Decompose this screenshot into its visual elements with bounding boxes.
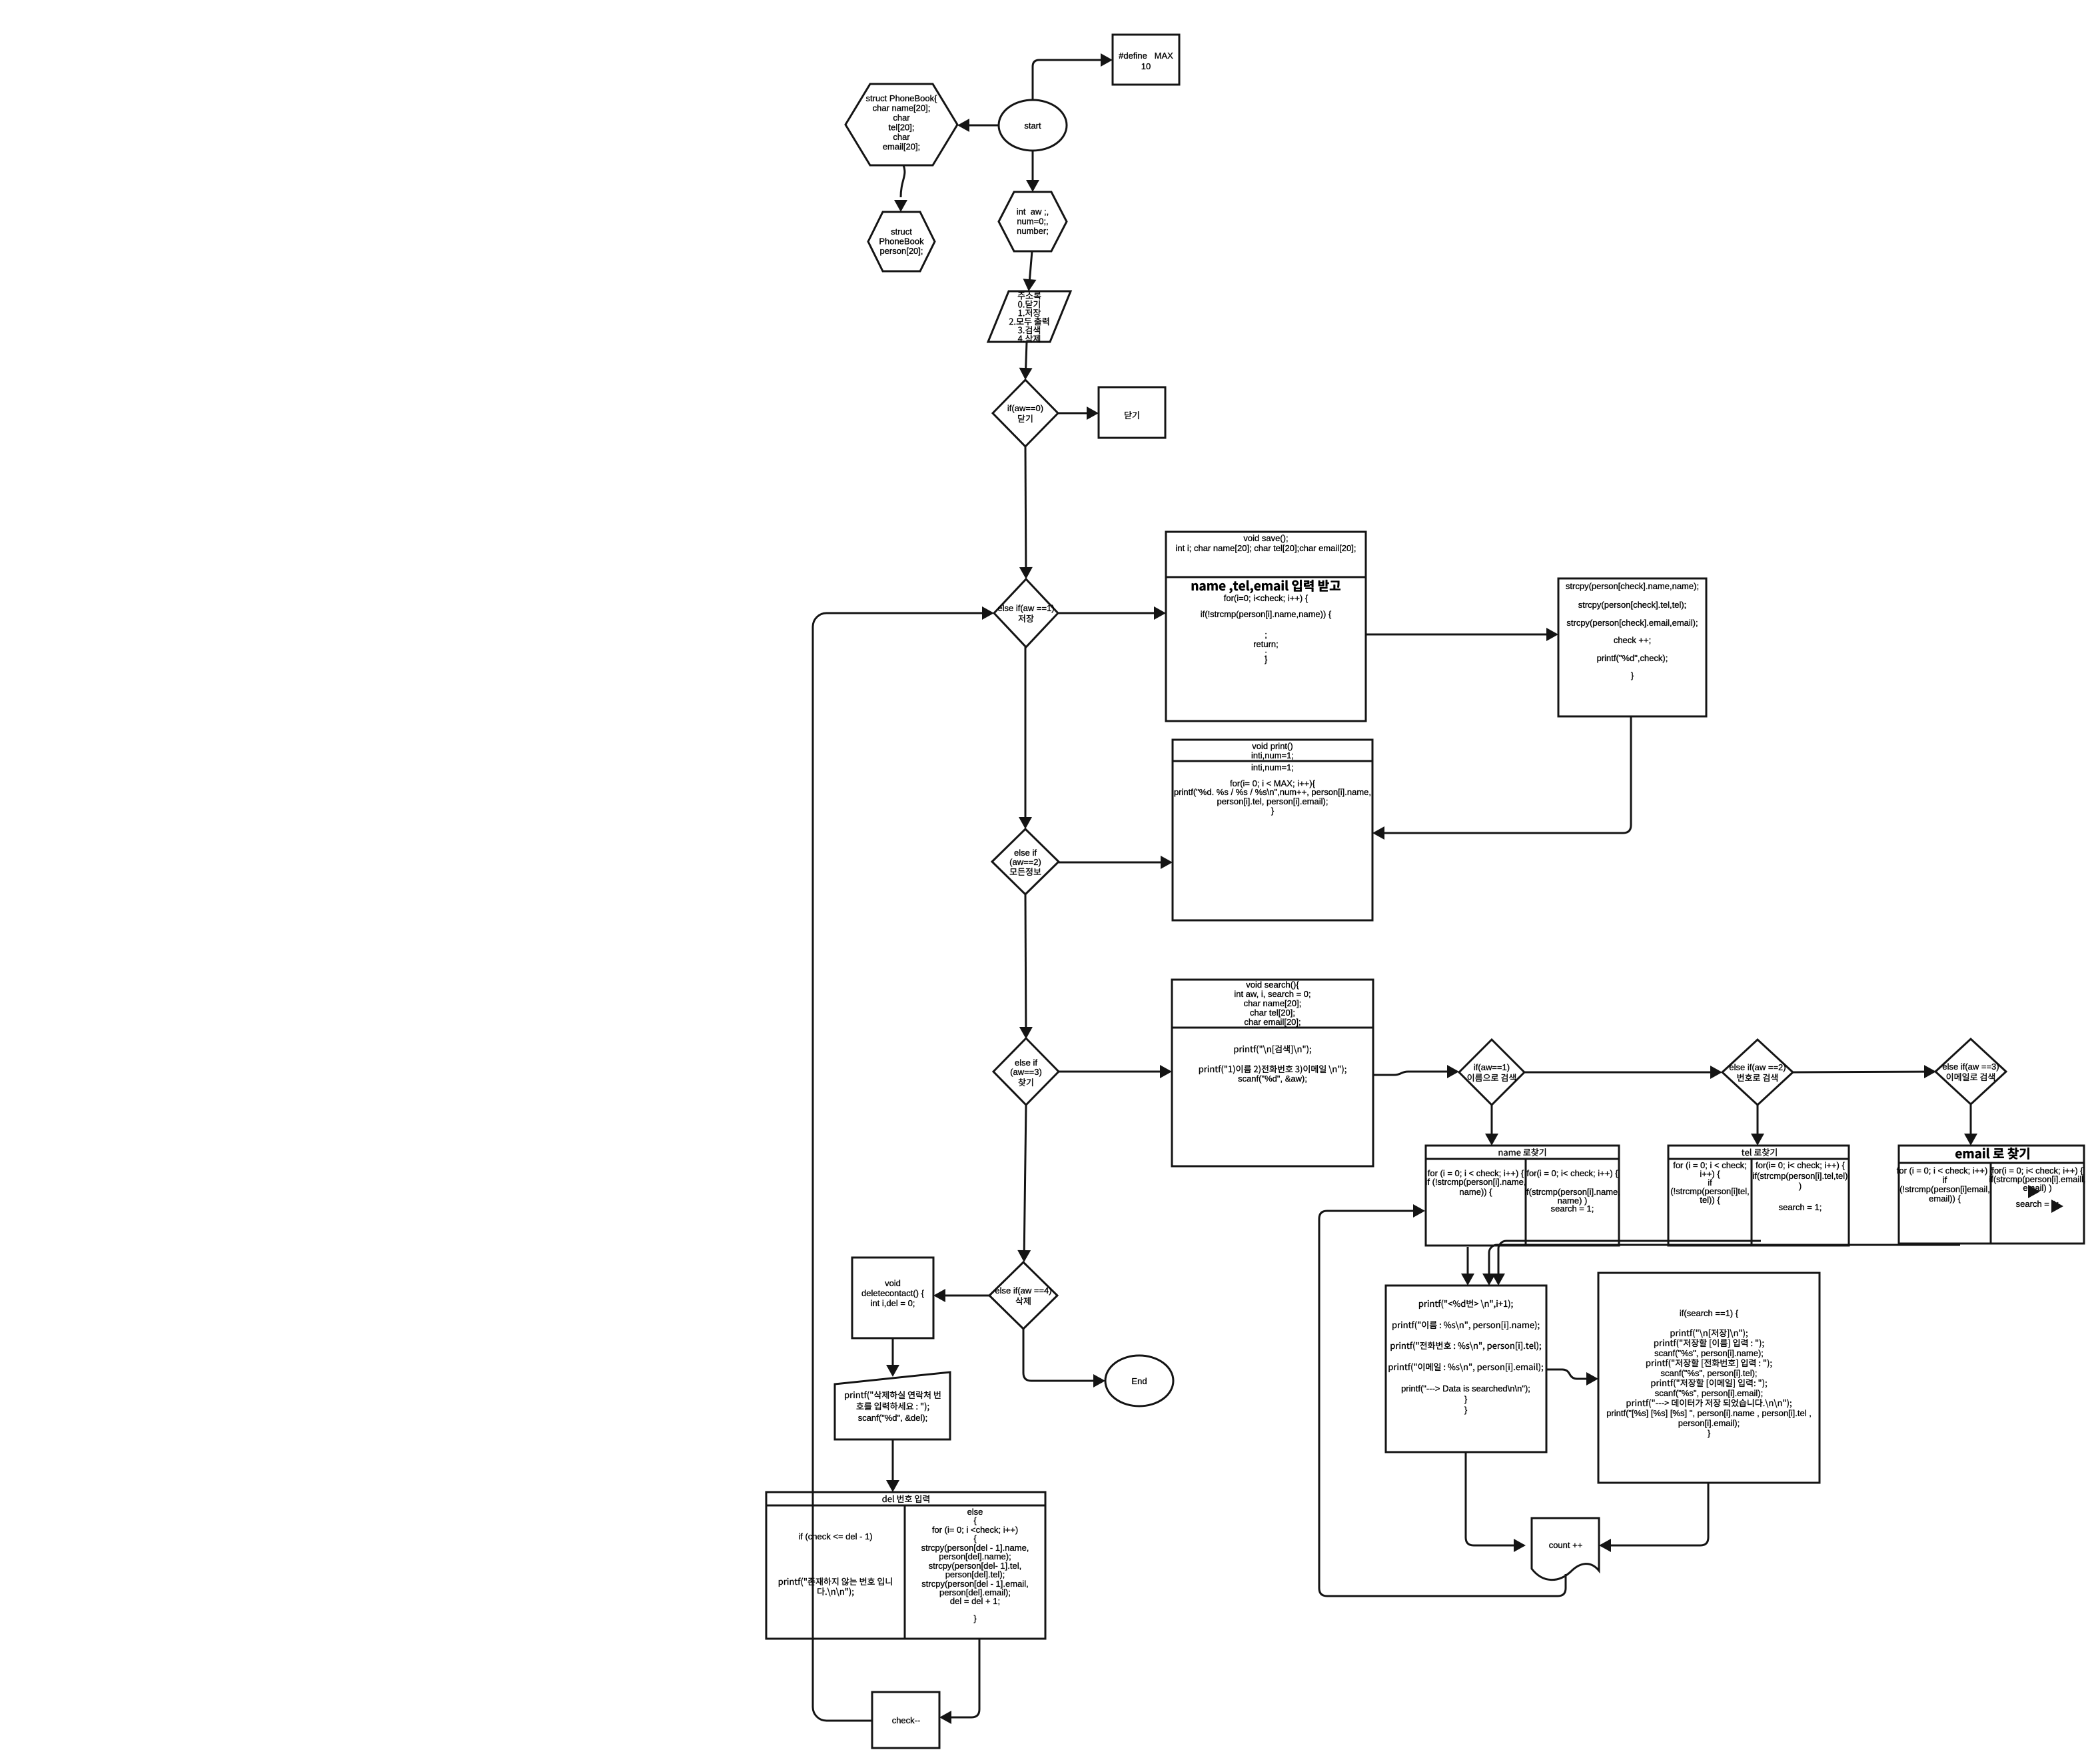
svg-text:if(aw==1): if(aw==1) — [1474, 1062, 1510, 1072]
svg-text:}: } — [1464, 1405, 1468, 1415]
svg-text:person[del].tel);: person[del].tel); — [945, 1569, 1005, 1579]
wire check-- loop to if(aw==1) — [813, 606, 994, 1721]
wire if(aw==4) to End — [1023, 1329, 1105, 1387]
wire start to int hexagon — [1026, 151, 1039, 192]
svg-text:person[i].tel, person[i].email: person[i].tel, person[i].email); — [1217, 796, 1328, 806]
svg-text:num=0;,: num=0;, — [1017, 217, 1048, 227]
wire count++ loop to name table — [1319, 1204, 1566, 1596]
svg-text:name)) {: name)) { — [1459, 1187, 1492, 1197]
svg-text:check ++;: check ++; — [1614, 635, 1651, 645]
svg-text:(aw==2): (aw==2) — [1009, 857, 1041, 867]
svg-text:if(aw==0): if(aw==0) — [1007, 403, 1043, 413]
preparation hexagon struct PhoneBook person[20] — [868, 212, 935, 271]
table name 로찾기 — [1426, 1146, 1620, 1246]
svg-text:else if: else if — [1014, 848, 1037, 858]
wire strcpy to print table — [1372, 716, 1631, 840]
table void save() — [1166, 532, 1366, 721]
table del 번호 입력 — [766, 1492, 1045, 1639]
wire if(aw==0) to 닫기 box — [1058, 407, 1099, 420]
decision else if(aw==3) 찾기 — [993, 1038, 1059, 1105]
wire name table to printf box — [1461, 1247, 1474, 1286]
wire manual input to del table — [886, 1439, 899, 1492]
svg-text:}: } — [1265, 654, 1268, 664]
decision else if(aw==2) 번호로 검색 — [1722, 1040, 1793, 1105]
svg-text:int i; char name[20]; char tel: int i; char name[20]; char tel[20];char … — [1176, 543, 1356, 553]
preparation hexagon struct PhoneBook — [845, 84, 957, 165]
svg-text:count ++: count ++ — [1549, 1540, 1583, 1550]
wire tel diamond to email diamond — [1793, 1065, 1936, 1078]
svg-text:struct: struct — [891, 227, 912, 237]
wire if(aw==3) to if(aw==4) — [1017, 1105, 1031, 1262]
wire if(aw==0) to if(aw==1) — [1019, 446, 1033, 579]
svg-text:int i,del = 0;: int i,del = 0; — [871, 1298, 915, 1308]
svg-text:printf("---> Data is searched\: printf("---> Data is searched\n\n"); — [1401, 1383, 1530, 1393]
wire printf box to count++ — [1466, 1452, 1526, 1552]
svg-text:email)) {: email)) { — [1929, 1194, 1961, 1204]
svg-text:else if(aw ==4): else if(aw ==4) — [995, 1286, 1051, 1296]
svg-text:;: ; — [1265, 630, 1267, 640]
svg-text:inti,num=1;: inti,num=1; — [1251, 750, 1294, 760]
preparation hexagon int aw num number — [999, 192, 1067, 251]
decision if(aw==1) 이름으로 검색 — [1459, 1040, 1524, 1105]
svg-text:scanf("%d", &aw);: scanf("%d", &aw); — [1238, 1074, 1307, 1084]
svg-text:char name[20];: char name[20]; — [873, 103, 931, 113]
svg-text:tel[20];: tel[20]; — [888, 123, 914, 133]
svg-text:person[i].email);: person[i].email); — [1678, 1418, 1740, 1428]
svg-text:printf("%d. %s / %s / %s\n",nu: printf("%d. %s / %s / %s\n",num++, perso… — [1174, 787, 1371, 797]
svg-text:void print(): void print() — [1252, 741, 1293, 751]
svg-text:if(strcmp(person[i].tel,tel): if(strcmp(person[i].tel,tel) — [1752, 1171, 1847, 1181]
svg-text:check--: check-- — [892, 1715, 921, 1725]
terminator start — [999, 100, 1067, 151]
process box printf search result — [1386, 1286, 1546, 1452]
svg-text:char tel[20];: char tel[20]; — [1250, 1008, 1295, 1018]
svg-text:else if(aw ==1): else if(aw ==1) — [997, 603, 1054, 613]
arrowhead artifact in email table — [2028, 1185, 2063, 1213]
wire if(aw==3) to search table — [1059, 1065, 1172, 1078]
process box check-- — [872, 1692, 939, 1748]
svg-text:scanf("%s", person[i].name);: scanf("%s", person[i].name); — [1654, 1348, 1764, 1358]
table void print() — [1173, 740, 1372, 920]
svg-text:for(i=0; i<check; i++) {: for(i=0; i<check; i++) { — [1224, 593, 1309, 603]
table email 로 찾기 — [1897, 1146, 2086, 1244]
svg-text:): ) — [1799, 1181, 1802, 1191]
svg-text:int aw ;,: int aw ;, — [1017, 207, 1049, 217]
decision else if(aw==4) 삭제 — [989, 1262, 1057, 1329]
svg-text:char: char — [893, 132, 910, 142]
wire menu to if(aw==0) — [1019, 342, 1033, 380]
svg-text:person[del].name);: person[del].name); — [939, 1551, 1011, 1561]
svg-text:printf("%d",check);: printf("%d",check); — [1597, 653, 1668, 663]
wire if(search==1) box to count++ — [1599, 1483, 1708, 1552]
decision else if(aw==1) 저장 — [994, 579, 1058, 647]
svg-text:{: { — [973, 1515, 977, 1525]
svg-text:if(search ==1) {: if(search ==1) { — [1680, 1308, 1739, 1318]
svg-text:number;: number; — [1017, 226, 1049, 236]
svg-text:char name[20];: char name[20]; — [1244, 998, 1302, 1008]
process box 닫기 — [1099, 387, 1165, 438]
svg-text:strcpy(person[check].email,ema: strcpy(person[check].email,email); — [1566, 618, 1698, 628]
wire if(aw==1) to if(aw==2) — [1019, 647, 1032, 829]
wire if(aw==2) to print table — [1059, 856, 1173, 869]
svg-text:for (i = 0; i < check; i++) {: for (i = 0; i < check; i++) { — [1897, 1166, 1993, 1176]
svg-text:10: 10 — [1141, 61, 1151, 71]
table tel 로찾기 — [1668, 1146, 1849, 1246]
decision if(aw==0) 닫기 — [993, 380, 1058, 446]
wire tel table to printf box — [1492, 1241, 1761, 1286]
svg-text:strcpy(person[check].name,name: strcpy(person[check].name,name); — [1566, 581, 1699, 591]
svg-text:}: } — [1271, 806, 1275, 816]
wire start to #define — [1033, 53, 1113, 100]
wire start to struct hexagon — [957, 119, 999, 132]
svg-text:#define MAX: #define MAX — [1119, 51, 1173, 61]
document shape count++ — [1532, 1518, 1599, 1580]
svg-text:void: void — [885, 1278, 901, 1288]
svg-text:else if(aw ==2): else if(aw ==2) — [1729, 1062, 1786, 1072]
terminator End — [1105, 1355, 1173, 1406]
wire name diamond to name table — [1485, 1105, 1498, 1146]
svg-text:}: } — [1708, 1428, 1711, 1438]
wire deletecontact to manual input — [886, 1338, 899, 1377]
svg-text:start: start — [1024, 121, 1041, 131]
svg-text:End: End — [1131, 1376, 1147, 1386]
svg-text:struct PhoneBook{: struct PhoneBook{ — [866, 93, 938, 103]
svg-text:scanf("%d", &del);: scanf("%d", &del); — [858, 1413, 928, 1423]
svg-text:(aw==3): (aw==3) — [1010, 1067, 1042, 1077]
wire email diamond to email table — [1964, 1104, 1977, 1146]
svg-text:scanf("%s", person[i].email);: scanf("%s", person[i].email); — [1655, 1388, 1763, 1398]
svg-text:if: if — [1943, 1175, 1947, 1185]
wire if(aw==1) to save table — [1058, 606, 1166, 620]
svg-text:void save();: void save(); — [1243, 533, 1288, 543]
svg-text:}: } — [1464, 1394, 1468, 1404]
svg-text:inti,num=1;: inti,num=1; — [1251, 762, 1294, 772]
svg-text:int aw, i, search = 0;: int aw, i, search = 0; — [1234, 989, 1311, 999]
wire struct hexagon to person hexagon — [894, 165, 907, 212]
wire search to if(aw==1) name — [1373, 1065, 1459, 1078]
svg-text:email[20];: email[20]; — [883, 142, 920, 152]
svg-text:tel)) {: tel)) { — [1700, 1195, 1720, 1205]
input parallelogram menu 주소록 — [988, 291, 1071, 343]
process box void deletecontact — [852, 1258, 933, 1338]
process box #define MAX 10 — [1113, 35, 1179, 85]
svg-text:else if(aw ==3): else if(aw ==3) — [1942, 1062, 1999, 1072]
svg-text:scanf("%s", person[i].tel);: scanf("%s", person[i].tel); — [1660, 1368, 1757, 1378]
table void search() — [1172, 980, 1373, 1166]
svg-text:{: { — [973, 1533, 977, 1543]
wire name diamond to tel diamond — [1524, 1066, 1722, 1079]
svg-text:}: } — [1631, 670, 1634, 680]
svg-text:for(i= 0; i< check; i++) {: for(i= 0; i< check; i++) { — [1756, 1160, 1845, 1170]
svg-text:printf("[%s] [%s] [%s] ", pers: printf("[%s] [%s] [%s] ", person[i].name… — [1606, 1408, 1812, 1418]
svg-text:strcpy(person[check].tel,tel);: strcpy(person[check].tel,tel); — [1578, 600, 1687, 610]
svg-text:search = 1;: search = 1; — [1551, 1204, 1594, 1214]
wire printf box to if(search==1) box — [1546, 1369, 1598, 1385]
wire int hexagon to menu — [1023, 251, 1037, 291]
wire if(aw==2) to if(aw==3) — [1019, 894, 1033, 1039]
svg-text:search = 1;: search = 1; — [1779, 1202, 1822, 1212]
manual input printf 삭제하실 — [835, 1372, 950, 1439]
svg-text:return;: return; — [1253, 639, 1279, 649]
svg-text:char: char — [893, 113, 910, 123]
wire save to strcpy box — [1366, 628, 1558, 641]
svg-text:person[20];: person[20]; — [879, 246, 923, 256]
wire tel diamond to tel table — [1751, 1105, 1764, 1146]
process box if(search==1) save data — [1598, 1273, 1820, 1483]
svg-text:else if: else if — [1015, 1058, 1037, 1068]
svg-text:if(!strcmp(person[i].name,name: if(!strcmp(person[i].name,name)) { — [1201, 609, 1332, 619]
wire email table to printf box — [1482, 1245, 1960, 1286]
decision else if(aw==2) 모든정보 — [992, 829, 1059, 894]
process box strcpy person[check] — [1558, 578, 1706, 716]
svg-text:char email[20];: char email[20]; — [1244, 1017, 1301, 1027]
wire del table to check-- — [939, 1639, 979, 1724]
svg-text:void search(){: void search(){ — [1246, 980, 1299, 990]
decision else if(aw==3) 이메일로 검색 — [1935, 1039, 2006, 1104]
svg-text:if (check <= del - 1): if (check <= del - 1) — [798, 1531, 872, 1541]
svg-text:PhoneBook: PhoneBook — [879, 237, 924, 247]
svg-text:}: } — [973, 1613, 977, 1623]
svg-text:deletecontact() {: deletecontact() { — [861, 1288, 925, 1298]
svg-text:if (!strcmp(person[i].name,: if (!strcmp(person[i].name, — [1426, 1177, 1526, 1187]
wire if(aw==4) to deletecontact box — [933, 1289, 989, 1302]
svg-text:for(i = 0; i< check; i++) {: for(i = 0; i< check; i++) { — [1526, 1168, 1618, 1178]
svg-text:del = del + 1;: del = del + 1; — [950, 1596, 1000, 1606]
svg-text:(!strcmp(person[i]email,: (!strcmp(person[i]email, — [1899, 1184, 1990, 1194]
